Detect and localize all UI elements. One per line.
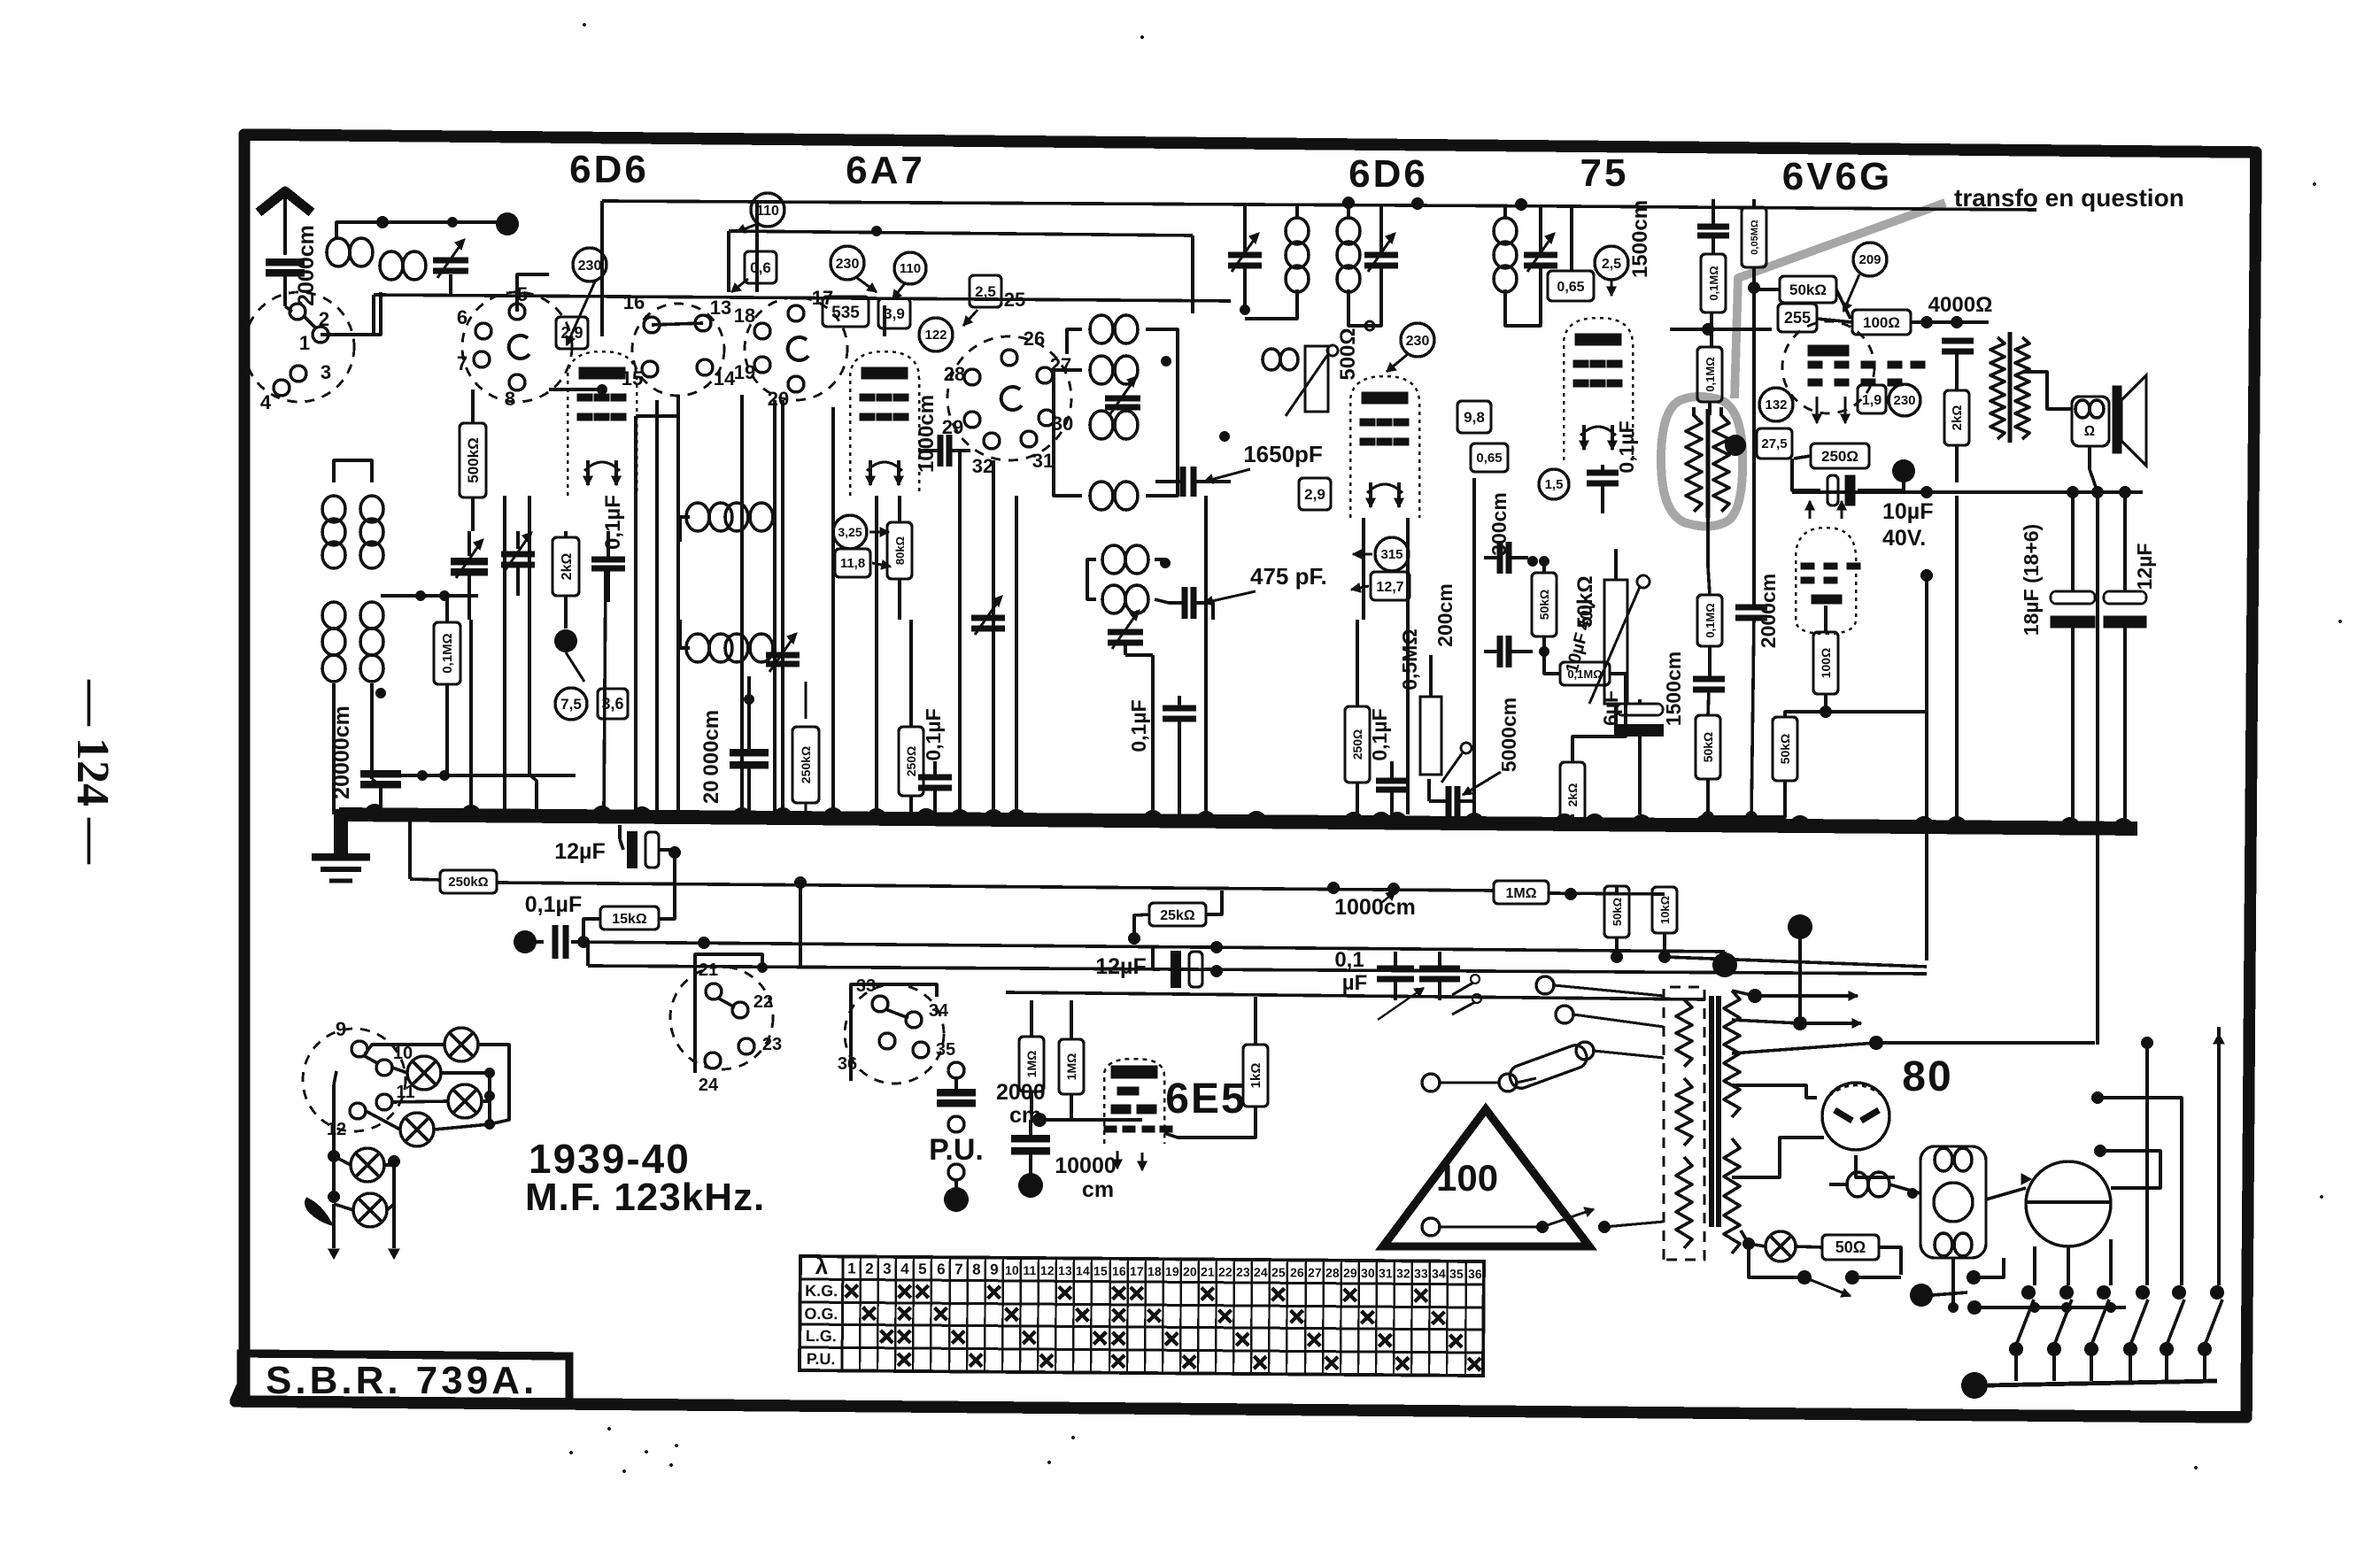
wire pair below socket 13-16 — [634, 416, 637, 814]
svg-text:5: 5 — [918, 1261, 927, 1277]
svg-text:12,7: 12,7 — [1376, 580, 1403, 595]
circled 1.5 — [1539, 469, 1569, 499]
svg-text:29: 29 — [1343, 1266, 1357, 1280]
wire speaker bottom down — [2090, 446, 2098, 492]
svg-text:31: 31 — [1379, 1266, 1393, 1280]
boxed 1.9 — [1858, 385, 1886, 413]
switch bank bottom rail — [1961, 1372, 1988, 1399]
svg-text:315: 315 — [1380, 547, 1402, 562]
svg-text:26: 26 — [1290, 1265, 1304, 1279]
svg-text:1500cm: 1500cm — [1628, 200, 1652, 278]
svg-text:19: 19 — [1165, 1264, 1179, 1278]
svg-text:250Ω: 250Ω — [904, 746, 918, 777]
6A7 tube side view — [850, 351, 919, 496]
svg-text:35: 35 — [1449, 1267, 1464, 1281]
circled 230 (6V6G) — [1889, 384, 1920, 416]
capacitor 475pF — [1181, 587, 1187, 619]
antenna — [259, 191, 312, 212]
boxed 0.65 (6D6#2) — [1471, 443, 1508, 472]
PU terminal circles — [948, 1116, 964, 1132]
circled 325 — [833, 515, 867, 549]
svg-text:75: 75 — [1580, 151, 1629, 195]
boxed 3.6 — [598, 689, 628, 719]
svg-text:122: 122 — [924, 328, 947, 343]
svg-text:100: 100 — [1436, 1157, 1498, 1199]
wire speaker to transformer — [2023, 372, 2072, 409]
475pF trimmer below — [1108, 629, 1143, 635]
svg-text:12: 12 — [1040, 1263, 1055, 1277]
scan speckles — [583, 23, 586, 27]
boxed 2.9 — [556, 317, 588, 349]
svg-text:50Ω: 50Ω — [1835, 1238, 1866, 1256]
6A7 socket pins 17-20 — [745, 297, 847, 400]
bus junction humps — [364, 804, 385, 814]
riser x904 — [799, 883, 802, 967]
svg-text:250Ω: 250Ω — [1821, 448, 1858, 465]
wire top to 6V6G — [1572, 206, 2036, 210]
svg-text:3,9: 3,9 — [884, 305, 905, 322]
rectifier disc unit — [2026, 1161, 2111, 1246]
svg-text:1,9: 1,9 — [1862, 393, 1882, 408]
PU terminal dot — [944, 1187, 969, 1212]
svg-text:0,1MΩ: 0,1MΩ — [440, 633, 455, 673]
big junction dot right of R2 — [1712, 953, 1737, 977]
junction dot 6E5 — [1032, 1113, 1047, 1127]
svg-text:20000cm: 20000cm — [329, 706, 354, 799]
svg-text:0,65: 0,65 — [1476, 451, 1502, 466]
rail R2 0.1uF line — [514, 930, 537, 953]
svg-text:209: 209 — [1858, 252, 1881, 267]
svg-text:0,1µF: 0,1µF — [1615, 420, 1638, 473]
svg-text:8: 8 — [972, 1261, 981, 1278]
switch below lamp — [1749, 1250, 1804, 1277]
boxed 0.65 (75) — [1548, 271, 1594, 301]
svg-text:P.U.: P.U. — [807, 1350, 836, 1368]
pilot lamp 2 — [407, 1056, 441, 1090]
grounded dot 10000cm — [1018, 1173, 1043, 1198]
pilot lamp 1 — [444, 1028, 478, 1061]
wire plate supply — [1911, 320, 1989, 324]
wire y372 right chain — [1670, 328, 1772, 331]
svg-text:50kΩ: 50kΩ — [1611, 898, 1624, 926]
oscillator trimmer — [766, 652, 800, 658]
svg-text:12µF: 12µF — [554, 839, 605, 864]
resistor 250 Ohm column — [899, 727, 923, 796]
wire 6V6G lower rail y556 — [1792, 490, 2143, 494]
svg-text:17: 17 — [1130, 1264, 1144, 1278]
svg-text:16: 16 — [1112, 1264, 1126, 1278]
junction dot 6V6G input — [1749, 282, 1759, 293]
80 filaments — [1835, 1110, 1852, 1121]
svg-text:100Ω: 100Ω — [1819, 648, 1833, 679]
svg-text:535: 535 — [831, 304, 860, 322]
svg-text:0,1: 0,1 — [1334, 948, 1364, 972]
input trimmer capacitor — [433, 257, 468, 263]
1M resistors (6E5 grid) — [1019, 1037, 1044, 1091]
resistor 2kOhm (75 cathode) — [1560, 762, 1585, 828]
svg-text:6V6G: 6V6G — [1782, 155, 1893, 198]
ground symbol — [334, 809, 348, 857]
circled 315 — [1375, 537, 1409, 571]
svg-text:P.U.: P.U. — [929, 1133, 984, 1167]
wire x1362 to bus — [1204, 496, 1208, 814]
rail R3 — [588, 966, 1927, 974]
svg-text:230: 230 — [578, 258, 602, 274]
trimmer capacitor stage 1b — [501, 551, 535, 557]
svg-text:500Ω: 500Ω — [1336, 328, 1360, 380]
svg-text:28: 28 — [1325, 1266, 1340, 1280]
svg-text:0,1µF: 0,1µF — [1368, 708, 1391, 760]
svg-text:2000cm: 2000cm — [1757, 574, 1780, 648]
circled 230 (6D6 plate) — [573, 248, 607, 282]
lamp wiring — [392, 1068, 407, 1073]
svg-text:3: 3 — [321, 361, 331, 383]
resistor 0.1M chain second — [1697, 347, 1722, 402]
tuning capacitor (variable) stage 1 — [451, 558, 488, 566]
svg-text:27: 27 — [1308, 1266, 1322, 1280]
lamp selector socket pins 9-12 — [303, 1029, 406, 1131]
svg-text:50kΩ: 50kΩ — [1778, 734, 1792, 765]
pilot lamp 4 — [400, 1113, 434, 1146]
interstage transformer core bar — [1706, 409, 1711, 518]
long vertical wire x2210 — [1955, 496, 1959, 828]
wire antenna to band switch — [285, 306, 292, 312]
IF2 primary coil — [1494, 218, 1517, 244]
circled 122 — [919, 318, 953, 351]
svg-text:36: 36 — [1468, 1267, 1482, 1281]
svg-text:19: 19 — [734, 361, 755, 383]
6E5 magic eye tube — [1104, 1059, 1164, 1144]
band switch socket pins 1-4 — [244, 292, 354, 402]
svg-text:24: 24 — [699, 1076, 719, 1095]
wire socket 25-32 columns to bus — [958, 451, 962, 814]
boxed 25 — [970, 275, 1001, 307]
25kOhm resistor below — [1149, 903, 1206, 926]
wire horizontal at 673 — [381, 594, 478, 598]
interstage transformer winding 2 — [1713, 415, 1729, 512]
svg-text:1: 1 — [299, 332, 310, 354]
resistor 0.1M chain third — [1697, 595, 1722, 646]
transformer core bars — [1709, 996, 1714, 1227]
svg-text:12µF: 12µF — [1095, 954, 1146, 979]
svg-text:M.F. 123kHz.: M.F. 123kHz. — [525, 1176, 765, 1219]
resistor 250 Ohm (6D6#2 cathode) — [1345, 706, 1370, 783]
svg-text:110: 110 — [900, 261, 921, 276]
svg-text:1650pF: 1650pF — [1243, 441, 1323, 467]
svg-text:21: 21 — [699, 960, 718, 980]
svg-text:33: 33 — [856, 976, 876, 996]
field coil / choke unit — [1920, 1146, 1986, 1258]
svg-text:3,25: 3,25 — [838, 525, 862, 539]
resistor 250kOhm dashed column — [805, 682, 807, 719]
svg-text:1MΩ: 1MΩ — [1024, 1051, 1039, 1078]
svg-text:36: 36 — [838, 1054, 857, 1074]
schematic border frame — [236, 135, 2256, 1417]
6V6G cathode arrows — [1816, 397, 1819, 423]
circled 230 (6A7) — [831, 246, 864, 280]
wire coil top rail to terminal — [336, 222, 507, 239]
svg-text:1: 1 — [847, 1260, 856, 1276]
secondary taps arrows heater — [1748, 989, 1762, 1003]
resistor 1kOhm — [1243, 1045, 1268, 1107]
verticals from right — [2145, 1043, 2149, 1285]
svg-text:34: 34 — [929, 1001, 949, 1021]
socket pins 21-24 with frame loop — [695, 968, 762, 1073]
circled 110 — [751, 193, 784, 227]
rail R4 — [1006, 992, 1705, 999]
switch lower — [1422, 1218, 1440, 1236]
svg-text:λ: λ — [815, 1253, 829, 1279]
svg-text:0,1µF: 0,1µF — [525, 892, 582, 917]
resistor 2kOhm cathode — [552, 537, 579, 596]
svg-text:500kΩ: 500kΩ — [465, 437, 482, 482]
resistor 2kOhm — [1944, 390, 1969, 445]
6V6G tube envelope — [1782, 321, 1874, 413]
svg-text:10: 10 — [393, 1044, 413, 1063]
wire x1302 to bus — [1151, 655, 1155, 814]
svg-text:11,8: 11,8 — [840, 556, 865, 571]
svg-text:200cm: 200cm — [1433, 583, 1457, 647]
wires 80 plates — [1732, 1085, 1817, 1098]
svg-text:— 124 —: — 124 — — [67, 679, 118, 865]
svg-text:18µF (18+6): 18µF (18+6) — [2020, 524, 2043, 636]
boxed 535 — [823, 297, 869, 327]
svg-text:2,5: 2,5 — [975, 283, 996, 300]
long AVC wire — [374, 295, 1231, 301]
title box S.B.R. 739A — [241, 1354, 569, 1405]
disc unit wires right — [2100, 1151, 2160, 1188]
resistor 0.05M right — [1742, 207, 1766, 267]
resistor 250 Ohm cathode 6V6G — [1811, 443, 1869, 468]
svg-text:20: 20 — [768, 388, 789, 410]
output transformer core — [2008, 332, 2013, 443]
75 tube side view — [1564, 318, 1633, 460]
svg-text:110: 110 — [756, 204, 779, 219]
6A7 grid cap wire — [883, 305, 886, 336]
svg-text:2kΩ: 2kΩ — [560, 553, 575, 581]
boxed 12.7 — [1371, 572, 1410, 600]
svg-text:20: 20 — [1183, 1264, 1197, 1278]
boxed 06 — [745, 251, 777, 283]
grid cap wire 6D6 — [517, 274, 549, 312]
svg-text:24: 24 — [1254, 1265, 1268, 1279]
svg-text:2,5: 2,5 — [1602, 257, 1621, 272]
svg-text:230: 230 — [1893, 393, 1915, 408]
circled 230 (6D6#2) — [1401, 323, 1434, 357]
dot with stub — [1910, 1284, 1933, 1307]
svg-text:4: 4 — [900, 1261, 909, 1277]
wire to socket 13-16 — [636, 395, 678, 416]
resistor 100 Ohm — [1852, 310, 1911, 335]
svg-text:2,9: 2,9 — [1304, 486, 1325, 503]
svg-text:0,1µF: 0,1µF — [922, 708, 945, 760]
screen wire — [549, 388, 602, 391]
IF1 secondary coil — [1337, 218, 1360, 244]
junction dot big (cathode) — [1892, 459, 1915, 482]
interstage transformer winding 1 — [1686, 415, 1702, 512]
svg-text:35: 35 — [936, 1040, 955, 1060]
long vertical wire x2175 — [1925, 575, 1928, 960]
svg-text:7: 7 — [954, 1261, 963, 1277]
svg-text:2kΩ: 2kΩ — [1950, 405, 1965, 431]
svg-text:50kΩ: 50kΩ — [1789, 282, 1827, 298]
svg-text:23: 23 — [1236, 1265, 1250, 1279]
svg-text:L.G.: L.G. — [806, 1327, 837, 1345]
wire rail to 75 — [1570, 206, 1573, 271]
svg-text:250kΩ: 250kΩ — [799, 746, 813, 783]
resistor 10k below R1 — [1652, 887, 1677, 933]
svg-text:17: 17 — [812, 287, 833, 309]
cathode junction dot — [554, 629, 577, 652]
circled 2.5 (75) — [1595, 246, 1628, 280]
svg-text:10: 10 — [1005, 1263, 1019, 1277]
wire 535 column to bus — [831, 407, 835, 814]
rail A wire — [602, 201, 1572, 206]
svg-text:10000: 10000 — [1055, 1153, 1117, 1178]
svg-text:4: 4 — [260, 391, 272, 413]
mains warning triangle 100 — [1383, 1109, 1589, 1246]
svg-text:S.B.R. 739A.: S.B.R. 739A. — [266, 1359, 537, 1402]
wire socket 13-16 down to bus — [740, 395, 744, 814]
svg-text:1000cm: 1000cm — [915, 395, 939, 473]
wire row y1476 — [1967, 1270, 1981, 1284]
wire 6D6#2 columns to bus — [1362, 518, 1365, 620]
svg-text:O.G.: O.G. — [804, 1305, 838, 1323]
svg-text:6D6: 6D6 — [1348, 152, 1428, 196]
svg-text:1500cm: 1500cm — [1662, 652, 1685, 726]
svg-text:21: 21 — [1201, 1265, 1215, 1279]
svg-text:6µF: 6µF — [1599, 690, 1622, 726]
vertical wire through bus x2369 — [2096, 492, 2099, 1045]
svg-text:18: 18 — [734, 305, 755, 327]
wire switch to input coils — [321, 292, 381, 335]
svg-text:2kΩ: 2kΩ — [1565, 783, 1580, 807]
pilot lamp 6 — [353, 1193, 387, 1227]
resistor 50kOhm (diode) — [1773, 717, 1797, 781]
svg-text:20 000cm: 20 000cm — [699, 710, 723, 804]
leaf pointer — [306, 1199, 330, 1223]
svg-text:5000cm: 5000cm — [1497, 698, 1520, 772]
svg-text:0,65: 0,65 — [1557, 280, 1584, 295]
svg-text:18: 18 — [1147, 1264, 1162, 1278]
resistor 0.1MOhm (antenna) — [434, 622, 460, 684]
resistor 500kOhm — [460, 423, 486, 497]
resistor 0.1M (75) — [1560, 662, 1610, 685]
svg-text:6: 6 — [937, 1261, 946, 1277]
svg-text:6E5: 6E5 — [1165, 1076, 1246, 1122]
6D6 socket top view pins 5-8 — [462, 292, 572, 402]
verticals from disc — [2033, 1246, 2036, 1285]
wire 0.1uF cap to bus — [604, 569, 606, 814]
rectifier tube 80 envelope — [1822, 1083, 1889, 1150]
svg-text:16: 16 — [623, 291, 645, 313]
primary dashed enclosure — [1664, 987, 1704, 1260]
svg-text:1000cm: 1000cm — [1334, 895, 1416, 920]
svg-text:3: 3 — [883, 1261, 892, 1277]
resistor 100 Ohm (diode load) — [1813, 632, 1838, 694]
switch contact circles on primary — [1536, 976, 1554, 994]
svg-text:25kΩ: 25kΩ — [1160, 908, 1195, 923]
resistor 50kOhm (75 plate) — [1532, 573, 1557, 636]
svg-text:25: 25 — [1004, 289, 1025, 311]
6D6 second tube side view — [1350, 376, 1419, 518]
IF1 primary coil — [1286, 218, 1309, 244]
svg-text:14: 14 — [714, 367, 736, 389]
circled 7.5 — [555, 688, 587, 720]
junction dot diode load — [1820, 706, 1832, 718]
wire 6D6 cathode down to bus — [503, 496, 506, 814]
svg-text:0,1MΩ: 0,1MΩ — [1704, 603, 1717, 637]
speaker — [2072, 397, 2109, 446]
wire 500k column to bus — [469, 620, 473, 814]
svg-text:0,1MΩ: 0,1MΩ — [1704, 357, 1717, 391]
wire cathode network — [1792, 459, 1820, 490]
socket pins 13-16 — [632, 304, 724, 396]
svg-text:4000Ω: 4000Ω — [1928, 293, 1993, 317]
oscillator coil assembly — [1090, 315, 1113, 343]
svg-text:cm: cm — [1082, 1177, 1114, 1202]
output transformer primary zigzag — [1990, 337, 2005, 439]
IF2 primary trimmer — [1524, 251, 1557, 258]
svg-text:100Ω: 100Ω — [1863, 314, 1900, 331]
coupling cap at output — [1942, 337, 1974, 343]
svg-text:10µF: 10µF — [1882, 499, 1933, 524]
svg-text:0,1µF: 0,1µF — [1127, 699, 1150, 752]
circled 209 — [1853, 243, 1887, 276]
svg-text:0,1µF: 0,1µF — [601, 495, 625, 550]
svg-text:50kΩ: 50kΩ — [1701, 732, 1715, 763]
svg-text:0,5MΩ: 0,5MΩ — [1398, 629, 1421, 690]
svg-text:6A7: 6A7 — [846, 149, 925, 192]
svg-text:13: 13 — [1058, 1263, 1072, 1277]
wire socket to AVC rail — [676, 396, 680, 496]
svg-text:32: 32 — [1396, 1266, 1410, 1280]
oscillator grid coils 20000cm — [686, 503, 709, 531]
wire x1665 to bus — [1472, 478, 1476, 814]
svg-text:transfo en question: transfo en question — [1954, 184, 2184, 212]
input coupling coil pair — [327, 238, 350, 266]
resistor 80kOhm — [887, 522, 912, 579]
svg-text:15: 15 — [622, 367, 643, 389]
svg-text:2: 2 — [865, 1261, 874, 1277]
resistor 50k chain — [1696, 715, 1720, 779]
svg-text:0,1MΩ: 0,1MΩ — [1707, 266, 1720, 300]
svg-text:15kΩ: 15kΩ — [612, 912, 647, 927]
wavelength table — [800, 1253, 1484, 1376]
svg-text:50kΩ: 50kΩ — [1537, 590, 1551, 621]
svg-text:µF: µF — [1342, 971, 1368, 995]
svg-text:1MΩ: 1MΩ — [1064, 1053, 1078, 1081]
svg-text:22: 22 — [1218, 1265, 1232, 1279]
svg-text:250kΩ: 250kΩ — [448, 875, 488, 890]
secondary winding bottom — [1724, 1138, 1740, 1253]
svg-text:1kΩ: 1kΩ — [1248, 1063, 1263, 1089]
pilot lamp 5 — [351, 1148, 384, 1182]
svg-text:13: 13 — [710, 297, 731, 319]
svg-text:2,9: 2,9 — [560, 324, 583, 342]
wire 1148 — [1015, 496, 1018, 814]
svg-text:12µF: 12µF — [2133, 544, 2156, 590]
IF1 secondary trimmer — [1364, 251, 1398, 258]
wire horizontal at 876 — [381, 774, 576, 777]
svg-text:0,05MΩ: 0,05MΩ — [1750, 220, 1760, 255]
svg-text:28: 28 — [944, 363, 965, 385]
wire IF1 to 6D6 grid — [1365, 321, 1374, 330]
svg-text:27,5: 27,5 — [1761, 436, 1787, 451]
svg-text:6: 6 — [457, 306, 467, 328]
wire 6A7 cathode pair to bus — [773, 400, 777, 813]
svg-text:15: 15 — [1093, 1264, 1108, 1278]
